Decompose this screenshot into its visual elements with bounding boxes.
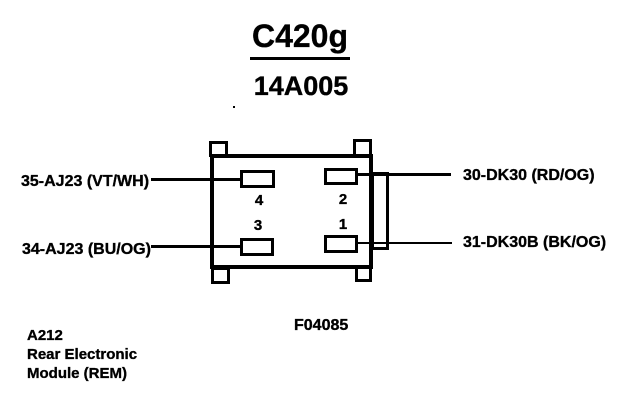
circuit label 30-DK30 (RD/OG) [463,167,595,185]
pin number 4 [249,192,269,209]
wire lead to pin 1 [355,242,452,244]
component callout A212 Rear Electronic Module (REM) [27,326,137,383]
pin number 3 [248,217,268,234]
pin number 1 [333,216,353,233]
circuit label 34-AJ23 (BU/OG) [22,241,151,259]
part number 14A005 [251,71,351,102]
connector tab top-left [209,141,228,157]
connector lock tab right [371,172,389,250]
scan speck [233,106,235,108]
pin 4 cavity [240,170,275,188]
pin 2 cavity [324,168,358,185]
pin 1 cavity [324,235,358,253]
pin 3 cavity [240,238,274,256]
circuit label 35-AJ23 (VT/WH) [21,173,149,191]
pin number 2 [333,191,353,208]
wire lead to pin 2 [355,173,451,176]
connector title C420g [250,18,350,55]
connector tab bottom-right [355,266,372,282]
title underline [250,57,350,60]
wire lead to pin 3 [151,245,243,248]
connector body C420g [210,154,373,269]
connector tab top-right [353,139,372,157]
wire lead to pin 4 [151,178,243,181]
connector tab bottom-left [211,267,230,284]
figure number F04085 [294,317,348,335]
circuit label 31-DK30B (BK/OG) [463,234,606,252]
